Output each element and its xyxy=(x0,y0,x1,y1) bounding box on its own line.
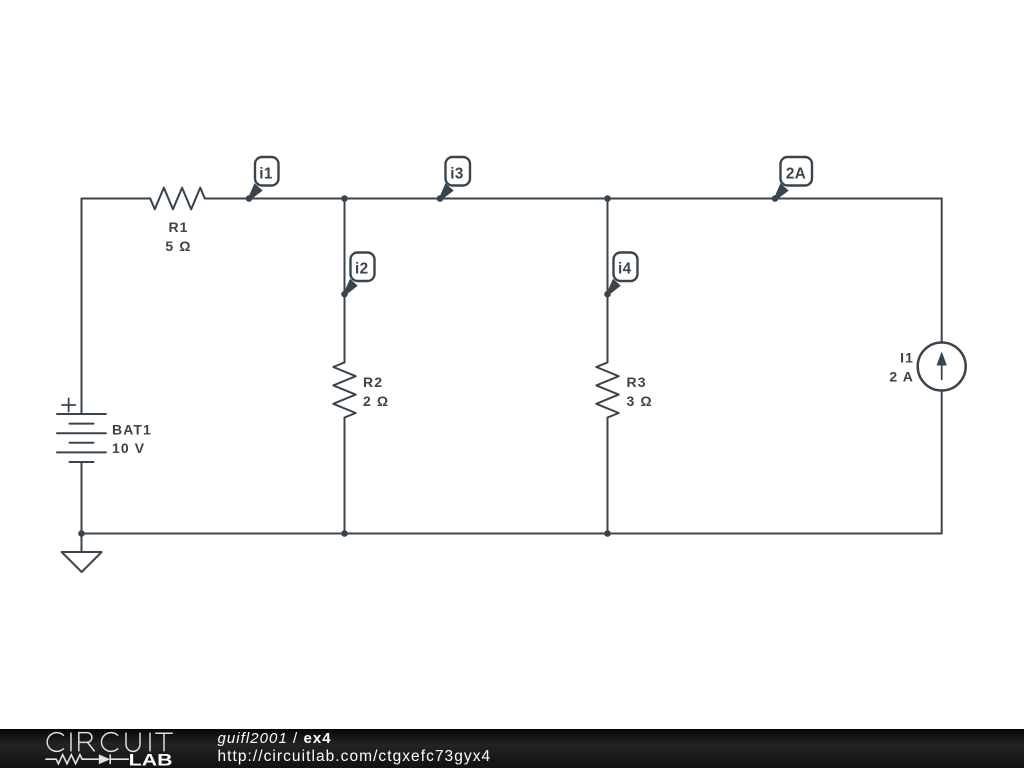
svg-text:i1: i1 xyxy=(259,165,273,182)
svg-text:2 Ω: 2 Ω xyxy=(363,393,389,409)
svg-text:2 A: 2 A xyxy=(889,369,914,385)
svg-text:guifl2001 / ex4: guifl2001 / ex4 xyxy=(218,730,332,747)
svg-text:3 Ω: 3 Ω xyxy=(627,393,653,409)
svg-text:i2: i2 xyxy=(355,261,369,278)
svg-text:BAT1: BAT1 xyxy=(112,422,152,438)
svg-text:10 V: 10 V xyxy=(112,440,145,456)
svg-text:http://circuitlab.com/ctgxefc7: http://circuitlab.com/ctgxefc73gyx4 xyxy=(218,748,492,765)
svg-text:R2: R2 xyxy=(363,374,383,390)
svg-text:R3: R3 xyxy=(627,374,647,390)
svg-text:R1: R1 xyxy=(168,219,188,235)
svg-text:I1: I1 xyxy=(900,350,914,366)
svg-text:2A: 2A xyxy=(786,165,806,182)
svg-text:i3: i3 xyxy=(450,165,464,182)
svg-text:5 Ω: 5 Ω xyxy=(165,238,191,254)
svg-text:i4: i4 xyxy=(618,261,632,278)
svg-text:LAB: LAB xyxy=(129,751,173,768)
